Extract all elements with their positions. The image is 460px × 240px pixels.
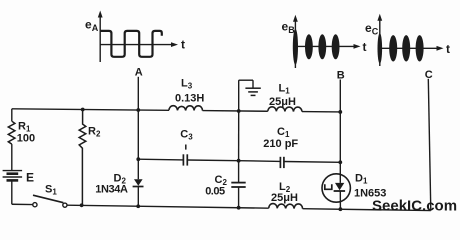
junction dot middle row node A xyxy=(136,157,140,161)
waveform eA vertical axis arrowhead xyxy=(98,11,103,18)
svg-text:C3: C3 xyxy=(180,128,193,141)
svg-text:L3: L3 xyxy=(181,78,193,91)
wire middle row center column to C1 xyxy=(239,160,281,163)
waveform eB burst lobe 3 xyxy=(318,34,326,59)
waveform eA horizontal axis xyxy=(100,44,172,46)
svg-text:B: B xyxy=(337,70,345,82)
diode D1 U mark xyxy=(325,184,332,189)
svg-text:210 pF: 210 pF xyxy=(263,138,298,150)
capacitor C2 top plate xyxy=(231,182,245,184)
wire bottom rail switch to L2 xyxy=(67,205,269,208)
label C3 leader tick xyxy=(185,145,187,150)
wire middle row A to C3 xyxy=(138,158,183,161)
diode D1 triangle xyxy=(335,183,344,190)
svg-text:C: C xyxy=(425,69,433,81)
inductor L3 xyxy=(169,106,203,111)
svg-text:25μH: 25μH xyxy=(271,192,298,204)
junction dot bottom rail D2 xyxy=(136,204,140,208)
junction dot middle row node B xyxy=(338,160,342,164)
battery E plate 3 long xyxy=(3,176,23,178)
wire left column upper xyxy=(11,109,13,121)
svg-text:L1: L1 xyxy=(279,83,291,96)
wire middle row C3 to center column xyxy=(187,159,238,162)
waveform eC vertical axis xyxy=(379,19,381,66)
waveform eA square wave trace xyxy=(100,31,162,57)
svg-text:eA: eA xyxy=(85,18,99,34)
capacitor C1 right plate xyxy=(283,157,285,168)
waveform eB horizontal axis xyxy=(295,45,355,47)
waveform eB burst lobe 2 xyxy=(305,34,313,59)
waveform eB horizontal axis arrowhead xyxy=(354,44,361,49)
wire center column middle row to C2 xyxy=(238,161,240,183)
diode D1 circle xyxy=(322,174,350,202)
waveform eC burst lobe 1 xyxy=(378,33,383,64)
waveform eB burst lobe 4 xyxy=(332,34,340,59)
ground stub xyxy=(252,80,254,88)
waveform eA vertical axis xyxy=(99,16,101,63)
switch S1 right contact xyxy=(63,203,67,207)
junction dot top rail node A xyxy=(136,108,140,112)
ground riser wire xyxy=(238,80,240,111)
node C stub wire xyxy=(428,79,431,211)
ground bar 1 xyxy=(245,87,260,89)
svg-text:t: t xyxy=(363,40,367,54)
waveform eB burst lobe 1 xyxy=(293,29,298,65)
diode D2 cathode bar xyxy=(133,186,144,188)
wire D2 to bottom rail xyxy=(137,187,139,207)
diode D1 cathode bar xyxy=(334,190,346,192)
wire bottom rail right segment xyxy=(303,209,431,211)
wire C2 to bottom rail xyxy=(238,187,240,208)
waveform eC burst lobe 4 xyxy=(416,35,424,61)
svg-text:A: A xyxy=(135,67,143,79)
resistor R1 xyxy=(8,121,15,144)
wire left column middle xyxy=(11,144,13,171)
capacitor C2 bottom plate xyxy=(231,186,245,188)
waveform eC burst lobe 3 xyxy=(402,35,410,61)
svg-text:t: t xyxy=(446,42,450,56)
inductor L1 xyxy=(268,107,302,112)
wire bottom rail to switch xyxy=(12,203,33,205)
capacitor C1 left plate xyxy=(279,157,281,168)
junction dot bottom rail center column xyxy=(237,206,241,210)
svg-text:25μH: 25μH xyxy=(269,96,296,108)
wire center column top rail to middle row xyxy=(238,111,240,161)
battery E plate 2 short xyxy=(7,172,19,175)
ground bar 3 xyxy=(251,94,256,96)
waveform eB vertical axis xyxy=(294,20,296,68)
diode D1 anode wire xyxy=(339,162,341,183)
node A stub wire xyxy=(137,77,139,159)
wire D1 to bottom rail xyxy=(339,191,341,209)
junction dot bottom rail R2 xyxy=(80,203,84,207)
svg-text:0.13H: 0.13H xyxy=(175,93,204,105)
wire middle row C1 to B column xyxy=(284,161,340,164)
inductor L2 xyxy=(269,204,303,209)
svg-text:eC: eC xyxy=(365,21,379,37)
battery E plate 4 short xyxy=(7,179,19,182)
waveform eC vertical axis arrowhead xyxy=(377,14,382,21)
svg-text:R2: R2 xyxy=(88,126,101,139)
wire top rail middle segment xyxy=(203,110,268,113)
wire A column to diode D2 xyxy=(137,159,139,179)
svg-text:eB: eB xyxy=(282,20,296,36)
svg-text:100: 100 xyxy=(17,133,35,145)
svg-text:S1: S1 xyxy=(45,184,57,197)
junction dot top rail node B xyxy=(338,110,342,114)
svg-text:E: E xyxy=(26,171,34,185)
waveform eC horizontal axis arrowhead xyxy=(437,46,444,51)
capacitor C3 left plate xyxy=(182,154,184,165)
svg-text:D1: D1 xyxy=(355,173,368,186)
svg-text:t: t xyxy=(181,38,185,52)
diode D2 triangle xyxy=(134,179,143,186)
wire top rail left segment xyxy=(12,109,169,111)
wire left column lower xyxy=(11,180,13,204)
ground arm horizontal xyxy=(239,79,253,81)
svg-text:SeekIC.com: SeekIC.com xyxy=(372,198,457,215)
node B stub wire xyxy=(339,80,341,163)
waveform eB vertical axis arrowhead xyxy=(293,15,298,22)
waveform eC burst lobe 2 xyxy=(389,35,397,61)
ground bar 2 xyxy=(248,91,258,93)
resistor R2 xyxy=(79,110,86,206)
junction dot top rail R2 xyxy=(81,108,85,112)
svg-text:0.05: 0.05 xyxy=(205,185,225,197)
wire top rail right segment xyxy=(302,111,340,113)
waveform eC horizontal axis xyxy=(380,47,438,49)
waveform eA horizontal axis arrowhead xyxy=(171,42,178,47)
battery E plate 1 long xyxy=(3,170,23,172)
svg-text:1N34A: 1N34A xyxy=(95,184,128,196)
switch S1 left contact xyxy=(33,203,37,207)
junction dot top rail center column xyxy=(237,109,241,113)
junction dot bottom rail node B xyxy=(339,207,343,211)
junction dot middle row center column xyxy=(237,159,241,163)
capacitor C3 right plate xyxy=(186,154,188,165)
switch S1 lever xyxy=(33,195,63,203)
